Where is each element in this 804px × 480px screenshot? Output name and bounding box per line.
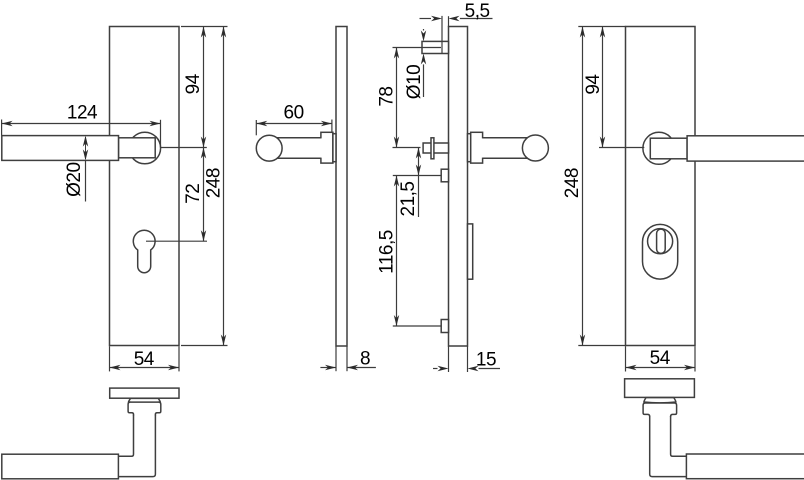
view2 lever neck side: [272, 138, 323, 157]
svg-text:60: 60: [284, 102, 304, 123]
extension screw axis: [393, 47, 442, 49]
bottomleft neck shaft and elbow: [118, 415, 155, 477]
view3 cylinder screw boss: [441, 169, 448, 182]
dim Ø10 leader above: [423, 29, 425, 31]
arrow 94 down: [201, 137, 206, 148]
view3 spindle washer: [431, 138, 434, 159]
view3 lever neck side: [481, 138, 532, 157]
bottomleft lever bar end: [2, 454, 119, 479]
dim 5,5 line segments: [420, 18, 432, 20]
arrow 5,5 pointing right: [431, 16, 442, 21]
svg-text:116,5: 116,5: [377, 230, 398, 274]
dim 60 extension right: [331, 120, 333, 132]
arrow 54 right: [168, 365, 179, 370]
bottomright plate strip: [625, 379, 695, 398]
view4 rose circle: [643, 132, 675, 164]
dim 21,5 line: [418, 148, 420, 218]
extension boss2 axis: [393, 325, 441, 327]
arrow 21,5 down: [416, 165, 421, 176]
arrow Ø20 up: [83, 136, 88, 147]
arrow 248 down: [221, 335, 226, 346]
dim 15 extensions below plate: [448, 346, 450, 372]
svg-text:248: 248: [562, 168, 583, 198]
svg-text:124: 124: [67, 102, 98, 123]
bottomright lever bar end: [686, 454, 804, 479]
svg-text:8: 8: [360, 349, 370, 370]
arrow 8 pointing left: [347, 365, 358, 370]
arrow 124 right: [150, 121, 161, 126]
extension plate top left: [578, 26, 625, 28]
arrow Ø10 down: [421, 30, 426, 41]
arrow 72 up: [201, 148, 206, 159]
dim 124 line: [2, 123, 161, 125]
bottomleft rose flange: [128, 402, 161, 415]
dim 5,5 extension plate face: [448, 16, 450, 27]
svg-text:72: 72: [183, 184, 204, 204]
arrow 248 up: [221, 27, 226, 38]
svg-text:54: 54: [650, 348, 671, 369]
arrow Ø20 down: [83, 149, 88, 160]
dim 60 line: [256, 123, 332, 125]
arrow 60 right: [321, 121, 332, 126]
dim 54 line: [110, 367, 180, 369]
dim 248 line: [223, 27, 225, 346]
bottomleft plate strip: [110, 388, 179, 398]
extension handle centre: [161, 147, 207, 149]
view4 cylinder core circle: [648, 229, 673, 254]
dim 248 line: [582, 27, 584, 346]
extension plate bottom right: [181, 345, 228, 347]
svg-text:Ø10: Ø10: [404, 65, 425, 99]
dim 94 line: [602, 27, 604, 148]
arrow 60 left: [256, 121, 267, 126]
arrow 94 up: [201, 27, 206, 38]
dim 78 line: [396, 48, 398, 148]
view2 backplate side: [336, 27, 347, 347]
dim 15 line segments: [433, 368, 438, 370]
dim 124 extension right: [160, 120, 162, 148]
arrow 15 pointing right: [438, 366, 449, 371]
extension cylinder centre: [146, 240, 207, 242]
svg-text:21,5: 21,5: [398, 182, 419, 217]
view1 backplate front: [110, 27, 180, 346]
bottomright rose flange: [643, 403, 677, 417]
arrow 5,5 pointing left: [449, 16, 460, 21]
extension handle centre: [599, 147, 644, 149]
arrow 116,5 down: [394, 315, 399, 326]
svg-text:94: 94: [183, 73, 204, 94]
view1 rose circle: [129, 132, 161, 164]
view4 security rosette oval: [643, 224, 678, 279]
view4 screw slot: [657, 229, 666, 253]
svg-text:248: 248: [204, 168, 225, 198]
bottomleft rose collar: [129, 398, 161, 402]
view3 lever ball end: [522, 135, 548, 161]
view3 rose ring: [468, 134, 471, 162]
dim 60 extension left: [255, 120, 257, 135]
svg-text:94: 94: [583, 74, 604, 95]
arrow 54 left: [626, 365, 637, 370]
view3 bottom screw boss: [441, 320, 448, 333]
view3 backplate side: [449, 27, 468, 347]
arrow 124 left: [2, 121, 13, 126]
dim 5,5 extension over screw: [441, 16, 443, 54]
view3 spindle: [423, 143, 448, 153]
arrow 248 down: [580, 335, 585, 346]
svg-text:5,5: 5,5: [465, 1, 490, 22]
arrow 94 down: [600, 137, 605, 148]
view4 backplate front: [626, 27, 696, 346]
arrow 54 left: [110, 365, 121, 370]
arrow 15 pointing left: [468, 366, 479, 371]
view2 rose ring: [333, 134, 336, 162]
dim 54 line: [626, 367, 696, 369]
dim 8 extensions below plate: [335, 346, 337, 371]
svg-text:54: 54: [134, 349, 155, 370]
dim 94 line: [203, 27, 205, 148]
extension handle axis: [393, 147, 421, 149]
dim 124 extension left: [1, 120, 3, 136]
arrow 248 up: [580, 27, 585, 38]
dim Ø20 arrow line + leader: [85, 137, 87, 159]
bottomright rose collar: [644, 398, 676, 403]
view4 lever neck: [650, 138, 687, 159]
arrow Ø10 up: [421, 54, 426, 65]
view3 security rosette side: [468, 224, 473, 279]
view3 rose flange: [471, 132, 483, 163]
dim Ø10 leader below: [423, 64, 425, 97]
view1 lever neck: [119, 138, 156, 158]
arrow 116,5 up: [394, 176, 399, 187]
view1 euro profile cylinder hole: [133, 230, 155, 272]
svg-text:15: 15: [476, 349, 496, 370]
dim 8 line segments: [320, 367, 336, 369]
extension plate top right: [181, 26, 228, 28]
svg-text:78: 78: [376, 87, 397, 107]
extensions plate bottom for 54: [625, 346, 627, 371]
dim 116,5 line: [396, 176, 398, 327]
extension boss1 axis: [393, 175, 441, 177]
view4 lever bar: [687, 136, 804, 161]
dim 72 line: [203, 148, 205, 242]
view2 rose flange: [321, 132, 333, 163]
arrow 78 down: [394, 137, 399, 148]
extension plate bottom for 54: [109, 346, 111, 371]
extension plate bottom left: [578, 345, 625, 347]
arrow 94 up: [600, 27, 605, 38]
arrow 54 right: [684, 365, 695, 370]
view3 top fixing screw: [422, 41, 449, 53]
view1 lever bar: [2, 136, 119, 161]
view2 lever ball end: [256, 135, 282, 161]
arrow 72 down: [201, 230, 206, 241]
svg-text:Ø20: Ø20: [64, 162, 85, 196]
arrow 78 up: [394, 48, 399, 59]
bottomright neck shaft and elbow: [650, 416, 687, 476]
arrow 21,5 up: [416, 148, 421, 159]
arrow 8 pointing right: [325, 365, 336, 370]
